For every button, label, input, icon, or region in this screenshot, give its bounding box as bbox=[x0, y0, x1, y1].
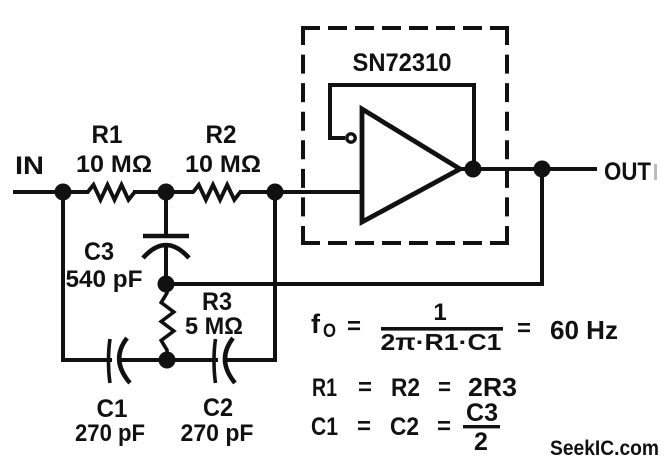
dashed box around SN72310 bbox=[301, 26, 509, 245]
op-amp inverting input bubble bbox=[347, 134, 355, 142]
wire R3 bottom node to C2 bbox=[167, 358, 218, 362]
svg-text:=: = bbox=[437, 413, 451, 440]
svg-text:C3: C3 bbox=[466, 399, 498, 427]
partial cut glyph at right edge bbox=[654, 164, 657, 180]
svg-text:=: = bbox=[438, 374, 451, 401]
wire between R1 and R2 bbox=[133, 190, 194, 194]
wire feedback loop of op-amp bbox=[330, 85, 474, 169]
svg-text:SeekIC.com: SeekIC.com bbox=[550, 437, 659, 460]
wire C3 branch from node J2 down bbox=[164, 192, 168, 235]
svg-text:C1: C1 bbox=[97, 395, 128, 423]
wire bottom left segment to C1 bbox=[61, 358, 112, 362]
wire C1 to R3 bottom node bbox=[119, 358, 168, 362]
svg-text:SN72310: SN72310 bbox=[353, 49, 452, 77]
capacitor C1 bbox=[109, 338, 131, 383]
resistor R2 bbox=[193, 185, 240, 200]
wire mid horizontal from node J5 to OUT node bbox=[166, 169, 542, 284]
svg-text:R2: R2 bbox=[206, 121, 237, 149]
svg-text:R3: R3 bbox=[202, 288, 232, 316]
svg-text:2: 2 bbox=[474, 428, 488, 456]
svg-text:2R3: 2R3 bbox=[468, 372, 517, 402]
svg-text:R1: R1 bbox=[92, 121, 123, 149]
svg-text:60 Hz: 60 Hz bbox=[550, 315, 618, 345]
node op-amp output junction bbox=[465, 161, 482, 178]
svg-text:OUT: OUT bbox=[604, 158, 651, 186]
svg-text:R1: R1 bbox=[312, 374, 337, 402]
svg-text:R2: R2 bbox=[391, 374, 420, 402]
svg-text:C2: C2 bbox=[203, 394, 233, 422]
formula R1 = R2 = 2R3 bbox=[312, 372, 517, 402]
svg-text:270 pF: 270 pF bbox=[181, 420, 254, 447]
svg-text:C3: C3 bbox=[84, 238, 114, 266]
node J2 R1/R2/C3 junction bbox=[158, 184, 175, 201]
svg-text:=: = bbox=[347, 313, 361, 340]
formula fO = 1/(2pi R1 C1) = 60 Hz bbox=[311, 299, 618, 355]
svg-text:540 pF: 540 pF bbox=[66, 266, 143, 293]
svg-text:=: = bbox=[357, 413, 371, 440]
wire C3 bottom to node J5 bbox=[164, 246, 168, 285]
svg-text:270 pF: 270 pF bbox=[75, 420, 145, 447]
svg-text:f: f bbox=[311, 309, 321, 339]
svg-text:10 MΩ: 10 MΩ bbox=[76, 151, 152, 178]
resistor R1 bbox=[88, 185, 135, 200]
capacitor C3 bbox=[143, 236, 189, 258]
wire IN lead bbox=[13, 190, 89, 194]
node J3 R2/op-amp junction bbox=[267, 184, 284, 201]
op-amp U1 triangle bbox=[362, 109, 460, 222]
svg-text:2π·R1·C1: 2π·R1·C1 bbox=[381, 329, 502, 355]
resistor R3 bbox=[161, 284, 174, 360]
svg-text:5 MΩ: 5 MΩ bbox=[185, 313, 243, 340]
node OUT junction bbox=[534, 161, 551, 178]
wire from R2 to op-amp input bbox=[239, 190, 364, 194]
svg-text:=: = bbox=[358, 374, 372, 401]
svg-text:IN: IN bbox=[15, 152, 44, 180]
svg-text:O: O bbox=[323, 321, 336, 342]
svg-text:C1: C1 bbox=[311, 413, 338, 441]
svg-text:=: = bbox=[517, 315, 531, 342]
node J5 C3/R3 junction bbox=[158, 276, 175, 293]
capacitor C2 bbox=[214, 338, 235, 383]
node J4 R3 bottom junction bbox=[159, 352, 176, 369]
wire C2 to bottom right corner up to node J3 bbox=[224, 192, 275, 360]
svg-text:10 MΩ: 10 MΩ bbox=[185, 151, 261, 178]
formula C1 = C2 = C3/2 bbox=[311, 399, 500, 456]
wire op-amp output to OUT terminal bbox=[458, 167, 597, 171]
svg-text:1: 1 bbox=[433, 299, 446, 326]
svg-text:C2: C2 bbox=[390, 413, 419, 441]
wire left vertical from input node down bbox=[61, 192, 65, 360]
node J1 input junction bbox=[55, 184, 72, 201]
